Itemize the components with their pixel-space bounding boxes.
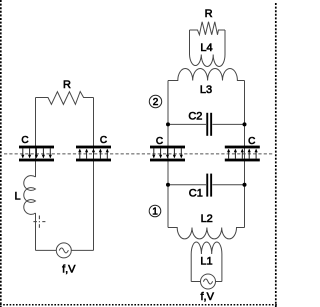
wire: left vertical below inductor [35, 213, 37, 250]
wire: R-loop left vertical [189, 30, 191, 55]
capacitor C (left circuit, right plate cap) [76, 146, 111, 162]
junction dot C1 left [166, 183, 170, 187]
svg-text:f,V: f,V [62, 263, 76, 275]
svg-text:C: C [156, 136, 163, 147]
wire: left vertical of left circuit [35, 98, 37, 178]
svg-text:L: L [14, 190, 20, 202]
svg-text:f,V: f,V [200, 291, 214, 303]
svg-text:C: C [21, 135, 28, 146]
svg-text:L1: L1 [200, 256, 212, 268]
capacitor C1 [168, 174, 245, 197]
border left [0, 0, 2, 307]
junction dot C2 right [243, 122, 247, 126]
wire: R-loop right vertical [224, 30, 226, 55]
svg-text:L2: L2 [201, 213, 213, 225]
wire: bottom left of right source [191, 281, 200, 283]
svg-text:L3: L3 [200, 84, 212, 96]
inductor L (left circuit) [24, 176, 36, 215]
border bottom [0, 304, 277, 306]
svg-text:C: C [248, 136, 255, 147]
border right [275, 3, 277, 307]
capacitor C (right circuit, right plate cap) [225, 146, 260, 162]
svg-text:C1: C1 [189, 188, 203, 200]
wire: right vertical of left circuit [93, 98, 95, 251]
resistor R (right circuit) [190, 22, 226, 35]
junction dot C2 left [166, 122, 170, 126]
symmetry cross marker [33, 216, 45, 228]
svg-text:R: R [205, 8, 213, 20]
resistor R (left circuit) [36, 92, 94, 105]
inductor L1 [191, 242, 222, 282]
wire: left vertical of right circuit [167, 81, 169, 228]
inductor L4 [190, 55, 226, 67]
label 2 in circle [149, 95, 161, 108]
capacitor C (right circuit, left plate cap) [150, 146, 185, 162]
source f,V (right circuit) [201, 274, 216, 289]
wire: bottom right of source [71, 249, 93, 251]
wire: bottom left of source [36, 249, 57, 251]
wire: bottom right of right source [216, 281, 222, 283]
wire: right vertical of right circuit [244, 81, 246, 228]
symmetry axis dashed line [4, 153, 274, 155]
junction dot C1 right [243, 183, 247, 187]
capacitor C2 [168, 113, 245, 136]
svg-text:R: R [63, 79, 71, 91]
inductor L3 [168, 68, 245, 80]
svg-text:L4: L4 [200, 42, 212, 54]
label 1 in circle [149, 205, 161, 217]
svg-text:C: C [100, 135, 107, 146]
capacitor C (left circuit, left plate cap) [19, 146, 54, 162]
svg-text:2: 2 [153, 97, 159, 108]
svg-text:1: 1 [152, 207, 158, 218]
source f,V (left circuit) [56, 243, 71, 258]
svg-text:C2: C2 [188, 110, 202, 122]
inductor L2 [168, 228, 245, 239]
